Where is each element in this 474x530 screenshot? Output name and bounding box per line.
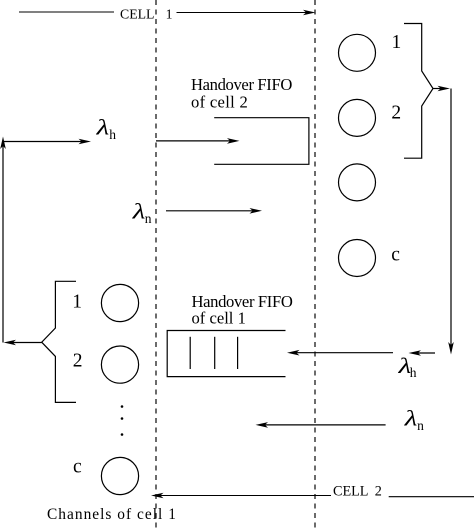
lambda-n cell 1 arrow [166, 208, 262, 214]
svg-text:of cell 1: of cell 1 [192, 309, 246, 328]
svg-text:1: 1 [72, 292, 82, 313]
cell 1 channel circle 2 [101, 346, 138, 383]
dashed cell boundary line 1 [155, 0, 157, 530]
left vertical feedback wire [2, 142, 4, 343]
handover FIFO of cell 2 (open-left box) [214, 118, 309, 165]
Handover FIFO of cell 1 label [192, 292, 293, 328]
CELL 2 footer arrow [151, 493, 331, 499]
handover FIFO of cell 1 (open-right box) [167, 331, 285, 377]
svg-text:CELL: CELL [333, 483, 368, 499]
svg-text:h: h [109, 127, 116, 142]
up arrowhead on left wire [0, 137, 6, 150]
Handover FIFO of cell 2 label [191, 75, 292, 112]
svg-text:n: n [145, 211, 152, 226]
svg-text:2: 2 [73, 350, 83, 371]
svg-text:c: c [391, 245, 400, 266]
FIFO of cell 1 queue slot tick 3 [237, 337, 239, 369]
svg-text:2: 2 [375, 483, 382, 499]
svg-text:λ: λ [95, 115, 109, 140]
lambda-n cell 1 label [132, 199, 152, 226]
cell 1 channel circle 1 [101, 284, 138, 321]
svg-text:n: n [417, 418, 424, 433]
svg-text:Handover FIFO: Handover FIFO [191, 75, 292, 94]
arrow into handover FIFO of cell 2 [156, 138, 240, 144]
svg-text:2: 2 [391, 103, 401, 124]
svg-text:CELL: CELL [120, 7, 155, 22]
lambda-n cell 2 arrow [256, 422, 386, 428]
cell 2 channel circle c [339, 240, 376, 277]
svg-text:Channels of cell 1: Channels of cell 1 [47, 506, 177, 523]
CELL 1 header arrow [177, 10, 316, 16]
arrow from right brace point [433, 86, 450, 92]
CELL 1 header line [19, 11, 114, 13]
short lambda-h right arrow [409, 350, 436, 356]
svg-text:1: 1 [166, 7, 173, 22]
long lambda-h arrow into FIFO of cell 1 [287, 350, 393, 356]
dashed cell boundary line 2 [314, 0, 316, 530]
svg-text:h: h [410, 365, 417, 380]
lambda-n cell 2 label [404, 406, 424, 433]
svg-text:1: 1 [392, 32, 402, 53]
cell 2 channel circle 3 [339, 164, 376, 201]
cell 2 channel circle 2 [339, 99, 376, 136]
right vertical wire down [450, 89, 452, 348]
right brace over cell 2 channels [404, 24, 433, 159]
vertical dots between cell 1 channels [121, 405, 124, 408]
svg-text:λ: λ [132, 199, 146, 224]
lambda-h bottom right label [397, 354, 416, 381]
FIFO of cell 1 queue slot tick 2 [214, 337, 216, 369]
left brace over cell 1 channels [42, 281, 76, 402]
svg-text:λ: λ [404, 406, 418, 431]
down arrowhead on right wire [448, 342, 454, 355]
CELL 2 footer right line [389, 496, 474, 498]
arrow from left brace point [4, 340, 42, 346]
svg-text:c: c [73, 456, 82, 477]
cell 2 channel circle 1 [339, 34, 376, 71]
lambda-h top-left arrow [3, 139, 91, 145]
lambda-h top-left label [95, 115, 116, 142]
FIFO of cell 1 queue slot tick 1 [189, 337, 191, 369]
cell 1 channel circle c [101, 457, 138, 494]
svg-text:of cell 2: of cell 2 [191, 93, 248, 112]
